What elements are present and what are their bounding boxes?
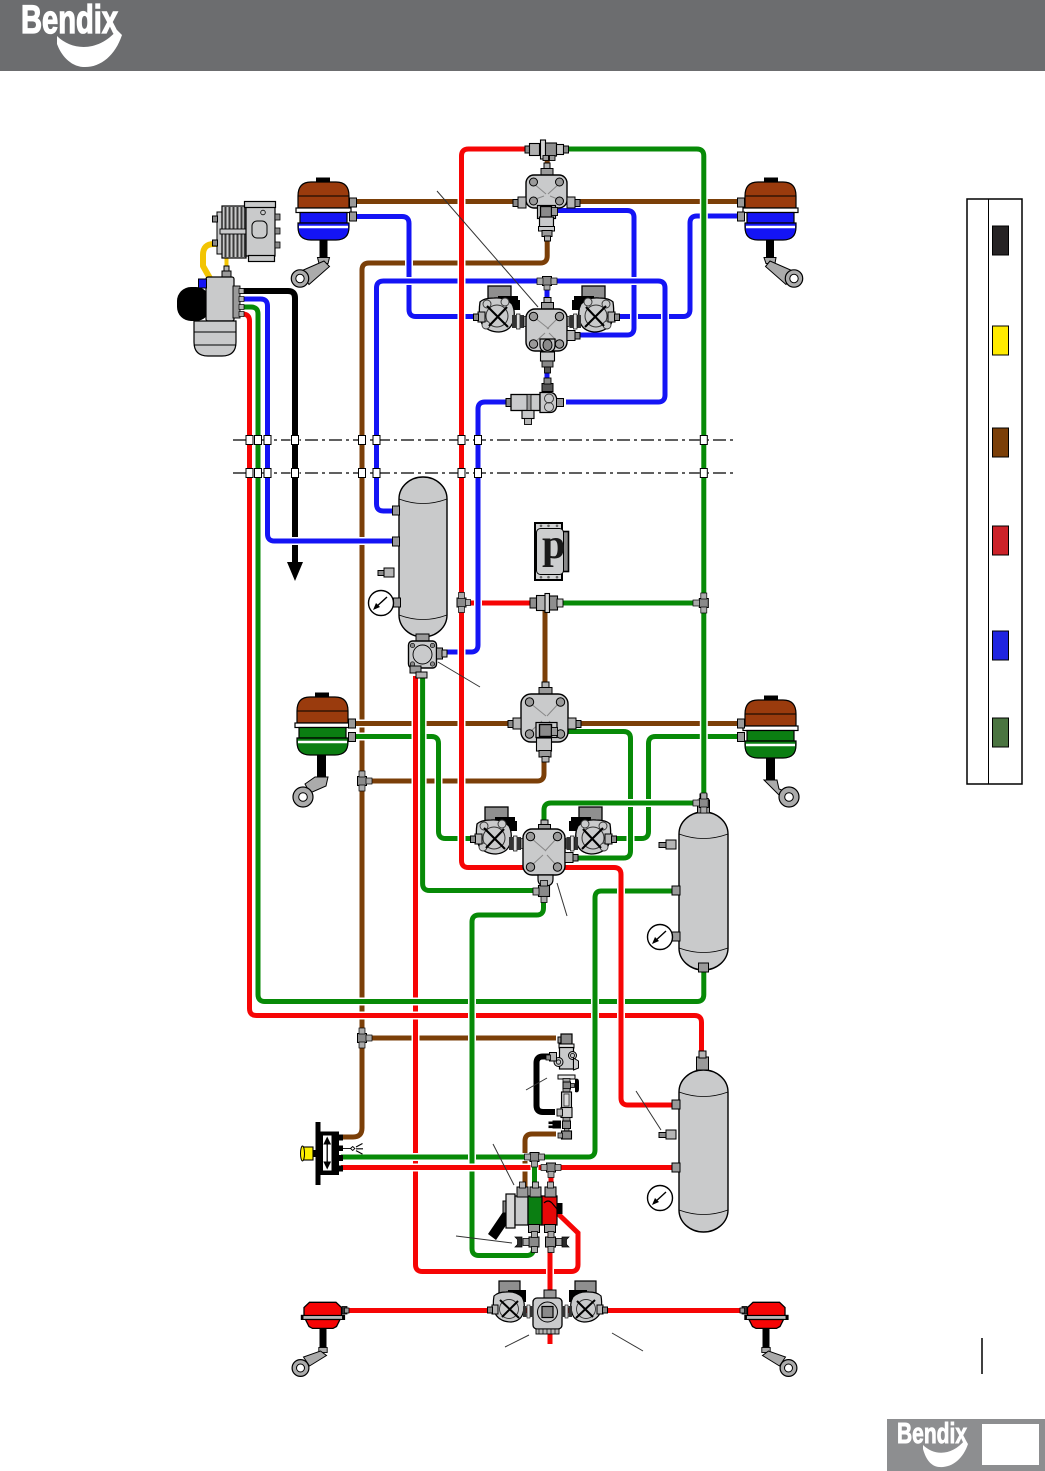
wire brown tee to rear ratio valve xyxy=(362,754,544,781)
front relay valve xyxy=(526,298,580,374)
wire red trailer service line xyxy=(341,1164,676,1172)
tee fitting brown y1038 xyxy=(358,1028,373,1048)
front ABS modulator left xyxy=(474,286,528,332)
drain cock trailer reservoir xyxy=(659,1130,676,1139)
slack adjuster front right xyxy=(764,240,803,287)
callout line trailer control valve xyxy=(493,1144,514,1185)
gladhand fitting service xyxy=(515,1232,539,1253)
brake chamber rear right xyxy=(738,696,799,759)
brake chamber rear left xyxy=(295,693,356,756)
header bar xyxy=(0,0,1045,71)
wire green rear right chamber to modulator xyxy=(613,737,741,839)
top QR valve xyxy=(513,163,580,241)
legend brown swatch xyxy=(993,428,1009,457)
svg-text:Bendix: Bendix xyxy=(897,1418,967,1450)
gauge rear reservoir xyxy=(648,925,673,950)
callout line rear relay xyxy=(557,883,567,916)
callout line gladhands xyxy=(456,1236,512,1243)
wire green tee to park control valve xyxy=(341,891,675,1157)
legend black swatch xyxy=(993,226,1009,255)
rear ABS modulator right xyxy=(563,807,617,854)
slack adjuster front left xyxy=(291,240,329,287)
Bendix logo top xyxy=(21,0,122,67)
tee fitting brown y781 xyxy=(358,771,373,791)
legend box xyxy=(967,199,1022,784)
wire blue single check valve to reservoir check valve xyxy=(445,402,508,652)
wire red reservoir check valve to trailer loop xyxy=(416,676,579,1272)
wire red trailer control to trailer relay xyxy=(546,1224,554,1344)
rear axle reservoir xyxy=(672,794,728,972)
wire red tee drop to trailer control valve xyxy=(547,1168,555,1189)
tee fitting blue y281 xyxy=(537,277,557,291)
wire green rear left chamber to modulator xyxy=(353,737,475,839)
wire red tee stub to inline fitting y603 xyxy=(462,599,533,607)
single check valve xyxy=(506,378,564,425)
frame clamps row 2 xyxy=(246,469,707,478)
trailer ABS modulator right xyxy=(562,1281,608,1322)
wire yellow governor line xyxy=(223,250,230,274)
callout line TPV upper xyxy=(526,1078,547,1090)
tractor protection valve assembly xyxy=(546,1034,579,1139)
wire blue front relay valve to single check valve xyxy=(543,350,551,390)
wire brown fitting to top QR valve xyxy=(543,154,551,176)
rear ABS modulator left xyxy=(471,807,525,854)
trailer ABS modulator left xyxy=(488,1281,534,1322)
slack adjuster rear right xyxy=(764,758,799,807)
wire blue main loop supply tank to check valve xyxy=(377,281,666,511)
svg-text:Bendix: Bendix xyxy=(21,0,118,42)
frame rail dash-dot lines xyxy=(233,439,737,441)
reservoir double check valve xyxy=(409,634,448,678)
wire brown front axle control line xyxy=(351,198,741,206)
governor p device xyxy=(535,522,569,580)
brake chamber trailer right xyxy=(740,1302,789,1328)
callout line reservoir check valve xyxy=(438,662,480,687)
slack adjuster trailer left xyxy=(292,1329,327,1377)
legend red swatch xyxy=(993,526,1009,555)
wire green ratio valve to rear relay loop xyxy=(566,732,631,859)
brake chamber front right xyxy=(738,178,799,241)
wire black compressor governor exhaust xyxy=(240,291,295,566)
drain cock rear reservoir xyxy=(659,840,676,849)
wire red air dryer to trailer reservoir top xyxy=(240,314,702,1058)
callout line trailer relay right xyxy=(612,1333,643,1351)
legend green swatch xyxy=(993,718,1009,747)
inline fitting y603 (red-green) xyxy=(530,594,563,613)
wire blue top QR valve to front relay valve xyxy=(552,211,634,336)
front ABS modulator right xyxy=(566,286,620,332)
gauge supply reservoir xyxy=(369,591,394,616)
supply reservoir xyxy=(393,477,448,637)
brake chamber trailer left xyxy=(301,1302,349,1328)
callout line top QR valve xyxy=(437,191,538,307)
inline fitting top (red-green) xyxy=(525,140,569,161)
callout line trailer reservoir xyxy=(636,1091,661,1130)
tick mark bottom right xyxy=(981,1338,983,1374)
wire green tee to rear relay top xyxy=(544,803,700,828)
wire green air dryer to rear reservoir bottom xyxy=(240,307,704,1002)
legend yellow swatch xyxy=(993,326,1009,355)
wire yellow compressor discharge hose xyxy=(203,244,251,303)
drain cock supply reservoir xyxy=(378,568,394,577)
wire blue front left chamber to modulator xyxy=(353,217,478,317)
tee fitting red y1168 xyxy=(541,1163,561,1178)
trailer supply control valve xyxy=(488,1182,563,1240)
gauge trailer reservoir xyxy=(648,1186,673,1211)
rear ratio relay valve xyxy=(508,682,581,762)
wire blue front right chamber to modulator xyxy=(615,216,741,317)
tee fitting green y803 xyxy=(693,793,708,813)
footer logo box xyxy=(887,1418,1045,1471)
trailer relay valve xyxy=(533,1290,562,1334)
wire green fitting to rear reservoir top trunk xyxy=(565,149,704,812)
cross fitting rear relay bottom xyxy=(533,881,550,903)
callout line trailer relay left xyxy=(505,1335,529,1347)
wire green S-line to trailer control valve xyxy=(472,886,544,1256)
wire black TPV hose loop xyxy=(537,1057,556,1113)
wire green tee line y603 xyxy=(560,599,700,607)
air dryer xyxy=(177,266,244,356)
frame clamps row 1 xyxy=(246,436,707,445)
wire brown fitting to rear ratio valve top xyxy=(541,608,549,692)
gladhand fitting supply xyxy=(546,1232,570,1253)
wire brown trunk QR valve to dash valve xyxy=(341,220,547,1137)
tee fitting green y1157 xyxy=(525,1153,545,1168)
black exhaust arrowhead xyxy=(287,562,303,581)
compressor xyxy=(213,202,281,262)
slack adjuster trailer right xyxy=(762,1329,797,1377)
brake chamber front left xyxy=(296,178,357,241)
wire blue air dryer to supply reservoir xyxy=(240,299,393,541)
wire red front supply trunk xyxy=(462,149,677,1105)
trailer reservoir xyxy=(672,1051,728,1232)
rear relay valve xyxy=(523,820,578,886)
wire green reservoir check valve to rear relay xyxy=(423,676,542,891)
park control dash valve xyxy=(301,1122,364,1185)
wire blue tee drop to front relay valve top xyxy=(543,281,551,305)
legend blue swatch xyxy=(993,631,1009,660)
wire brown tee to tractor protection valve xyxy=(362,1034,556,1042)
tee fitting green y603 xyxy=(693,593,708,613)
svg-text:p: p xyxy=(542,522,565,568)
wire red trailer axle line xyxy=(344,1307,742,1315)
slack adjuster rear left xyxy=(293,755,328,807)
tee fitting red y602 xyxy=(457,593,471,613)
wire brown TPV to trailer control valve xyxy=(525,1134,556,1194)
wire brown rear axle control line xyxy=(353,720,741,728)
wire green tee drop to trailer control valve xyxy=(531,1157,539,1192)
